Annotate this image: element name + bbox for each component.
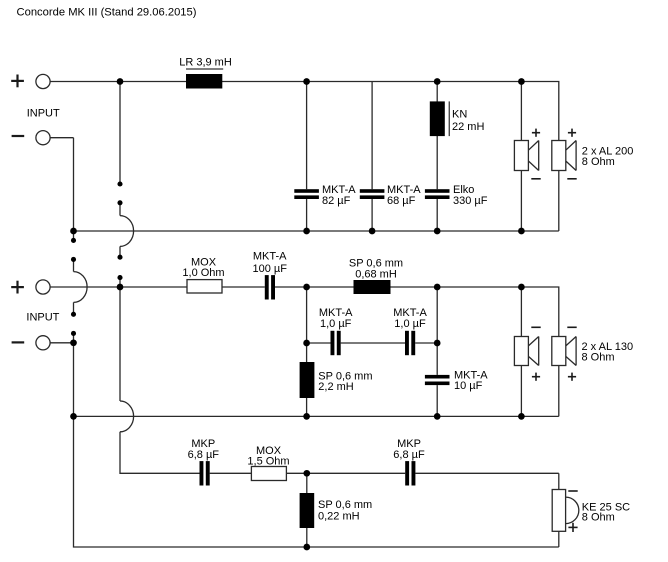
capacitor MKT-A 1,0 uF first: [331, 331, 341, 355]
break dot netB 277.6: [117, 275, 122, 280]
junction W5-C10: [434, 413, 441, 420]
capacitor MKT-A 82 uF: [294, 189, 319, 199]
svg-text:KN: KN: [452, 108, 467, 120]
capacitor Elko 330 uF: [425, 189, 450, 199]
junction W5-SP22: [303, 413, 310, 420]
speaker LS3 section2: [514, 337, 538, 366]
break dot netB 184: [117, 181, 122, 186]
wire net B hop over W2: [120, 216, 134, 247]
junction W3-netB: [117, 284, 124, 291]
terminal circle input2 plus: [36, 280, 50, 294]
wire branch speaker1 sec1: [520, 82, 522, 232]
junction W2-LS1: [518, 228, 525, 235]
svg-text:82 µF: 82 µF: [322, 195, 351, 207]
break dot netA 240.4: [71, 238, 76, 243]
polarity plus LS2: [568, 129, 576, 137]
wire vertical net A upper (input1 minus down): [73, 138, 75, 241]
resistor MOX 1,0 Ohm: [187, 280, 222, 293]
wire branch C82: [306, 82, 308, 232]
polarity minus LS3: [531, 326, 540, 328]
junction input2minus-netA: [70, 339, 77, 346]
junction W2-netA: [70, 228, 77, 235]
junction W3-LS3: [518, 284, 525, 291]
inductor SP 0,6 mm 2,2 mH: [300, 362, 315, 398]
junction W1-netB: [117, 78, 124, 85]
wire branch sec2 node B down: [436, 287, 438, 416]
capacitor MKT-A 10 uF: [425, 375, 450, 385]
polarity minus LS4: [567, 326, 576, 328]
svg-text:22 mH: 22 mH: [452, 121, 484, 133]
wire net B run through W3 junction: [119, 278, 121, 401]
polarity minus tweeter: [568, 490, 577, 492]
svg-text:10 µF: 10 µF: [454, 380, 483, 392]
resistor MOX 1,5 Ohm: [251, 467, 286, 481]
svg-text:6,8 µF: 6,8 µF: [188, 449, 220, 461]
wire vertical net B upper (input1 plus down): [119, 82, 121, 185]
svg-text:1,0 µF: 1,0 µF: [394, 318, 426, 330]
polarity plus input2: [11, 281, 24, 294]
svg-text:SP 0,6 mm: SP 0,6 mm: [318, 499, 372, 511]
svg-text:8 Ohm: 8 Ohm: [582, 156, 615, 168]
junction W2-C82: [303, 228, 310, 235]
svg-text:8 Ohm: 8 Ohm: [582, 512, 615, 524]
wire net B segment: [119, 203, 121, 216]
junction W6-SP022: [303, 470, 310, 477]
wire net B to tweeter feed: [120, 432, 559, 474]
svg-text:LR 3,9 mH: LR 3,9 mH: [179, 57, 232, 69]
svg-text:8 Ohm: 8 Ohm: [582, 351, 615, 363]
wire net B hop over W5: [120, 401, 134, 432]
terminal circle input1 plus: [36, 74, 50, 88]
terminal circle input2 minus: [36, 336, 50, 350]
wire W4b series cap row: [307, 342, 438, 344]
wire branch speaker1 sec2: [520, 287, 522, 416]
polarity plus LS3: [532, 373, 540, 381]
capacitor MKT-A 1,0 uF second: [405, 331, 415, 355]
svg-text:68 µF: 68 µF: [387, 195, 416, 207]
junction W2-C68: [369, 228, 376, 235]
junction W3-nodeB: [434, 284, 441, 291]
wire W2 section1 bottom rail: [74, 230, 559, 232]
speaker LS2 section1: [552, 141, 576, 171]
polarity plus input1: [11, 75, 24, 88]
polarity plus LS4: [568, 373, 576, 381]
polarity minus LS1: [531, 178, 540, 180]
inductor SP 0,6 mm 0,68 mH: [354, 280, 391, 294]
inductor KN 22 mH: [430, 101, 445, 136]
junction W2-Elko: [434, 228, 441, 235]
svg-text:1,0 µF: 1,0 µF: [320, 318, 352, 330]
svg-text:2,2 mH: 2,2 mH: [318, 381, 354, 393]
break dot netA 333: [71, 331, 76, 336]
wire net A lower run to bottom rail: [74, 333, 559, 547]
svg-text:MKT-A: MKT-A: [253, 250, 287, 262]
polarity plus tweeter: [568, 523, 577, 532]
speaker LS1 section1: [514, 141, 538, 171]
break dot netB 259: [117, 255, 122, 260]
svg-text:1,5 Ohm: 1,5 Ohm: [247, 455, 289, 467]
svg-text:6,8 µF: 6,8 µF: [393, 449, 425, 461]
polarity minus input1: [12, 135, 25, 137]
svg-text:INPUT: INPUT: [27, 107, 60, 119]
wire net A segment: [73, 259, 75, 271]
break dot netA 314.8: [71, 312, 76, 317]
junction W5-netA: [70, 413, 77, 420]
tweeter KE 25 SC: [552, 490, 579, 532]
capacitor MKP 6,8 uF second: [405, 461, 415, 485]
wire net A segment below hop: [73, 302, 75, 314]
wire branch sec2 node A down: [306, 287, 308, 416]
wire input2 minus lead: [50, 342, 73, 344]
terminal circle input1 minus: [36, 131, 50, 145]
wire break end dots: [71, 181, 123, 336]
capacitor MKT-A 68 uF: [360, 189, 385, 199]
polarity plus LS1: [532, 129, 540, 137]
junction W1-C82: [303, 78, 310, 85]
junction W5-LS3: [518, 413, 525, 420]
polarity minus LS2: [567, 178, 576, 180]
svg-text:0,68 mH: 0,68 mH: [355, 268, 397, 280]
junction W1-KN: [434, 78, 441, 85]
wire tweeter column: [558, 473, 560, 547]
label rule for LR: [186, 68, 223, 70]
wire W3 section2 top rail: [50, 287, 559, 416]
svg-text:INPUT: INPUT: [26, 312, 59, 324]
wire net A hop over W3: [74, 272, 88, 303]
wire W5 section2 bottom rail: [74, 415, 559, 417]
svg-text:1,0 Ohm: 1,0 Ohm: [182, 267, 224, 279]
svg-text:Concorde MK III (Stand 29.06.2: Concorde MK III (Stand 29.06.2015): [17, 6, 197, 18]
label rule for KN: [448, 101, 450, 136]
capacitor MKP 6,8 uF first: [200, 461, 210, 485]
polarity minus input2: [12, 341, 25, 343]
capacitor MKT-A 100 uF: [265, 275, 275, 299]
wire branch C68: [371, 82, 373, 232]
wire input1 minus lead: [50, 137, 73, 139]
junction W3-nodeA: [303, 284, 310, 291]
svg-text:100 µF: 100 µF: [252, 263, 287, 275]
svg-text:0,22 mH: 0,22 mH: [318, 511, 360, 523]
wire branch KN-Elko: [436, 82, 438, 232]
svg-text:330 µF: 330 µF: [453, 195, 488, 207]
break dot netA 259: [71, 257, 76, 262]
junction W1-LS1: [518, 78, 525, 85]
junction W4b-nodeA: [303, 340, 310, 347]
junction W4b-nodeB: [434, 340, 441, 347]
break dot netB 202.8: [117, 200, 122, 205]
wire net B segment: [119, 246, 121, 257]
wire W1 section1 top rail: [50, 82, 559, 232]
speaker LS4 section2: [552, 337, 576, 366]
junction W7-SP022: [303, 544, 310, 551]
wire branch SP022 shunt: [306, 473, 308, 547]
inductor SP 0,6 mm 0,22 mH: [300, 493, 315, 528]
inductor LR 3,9 mH: [186, 74, 222, 89]
